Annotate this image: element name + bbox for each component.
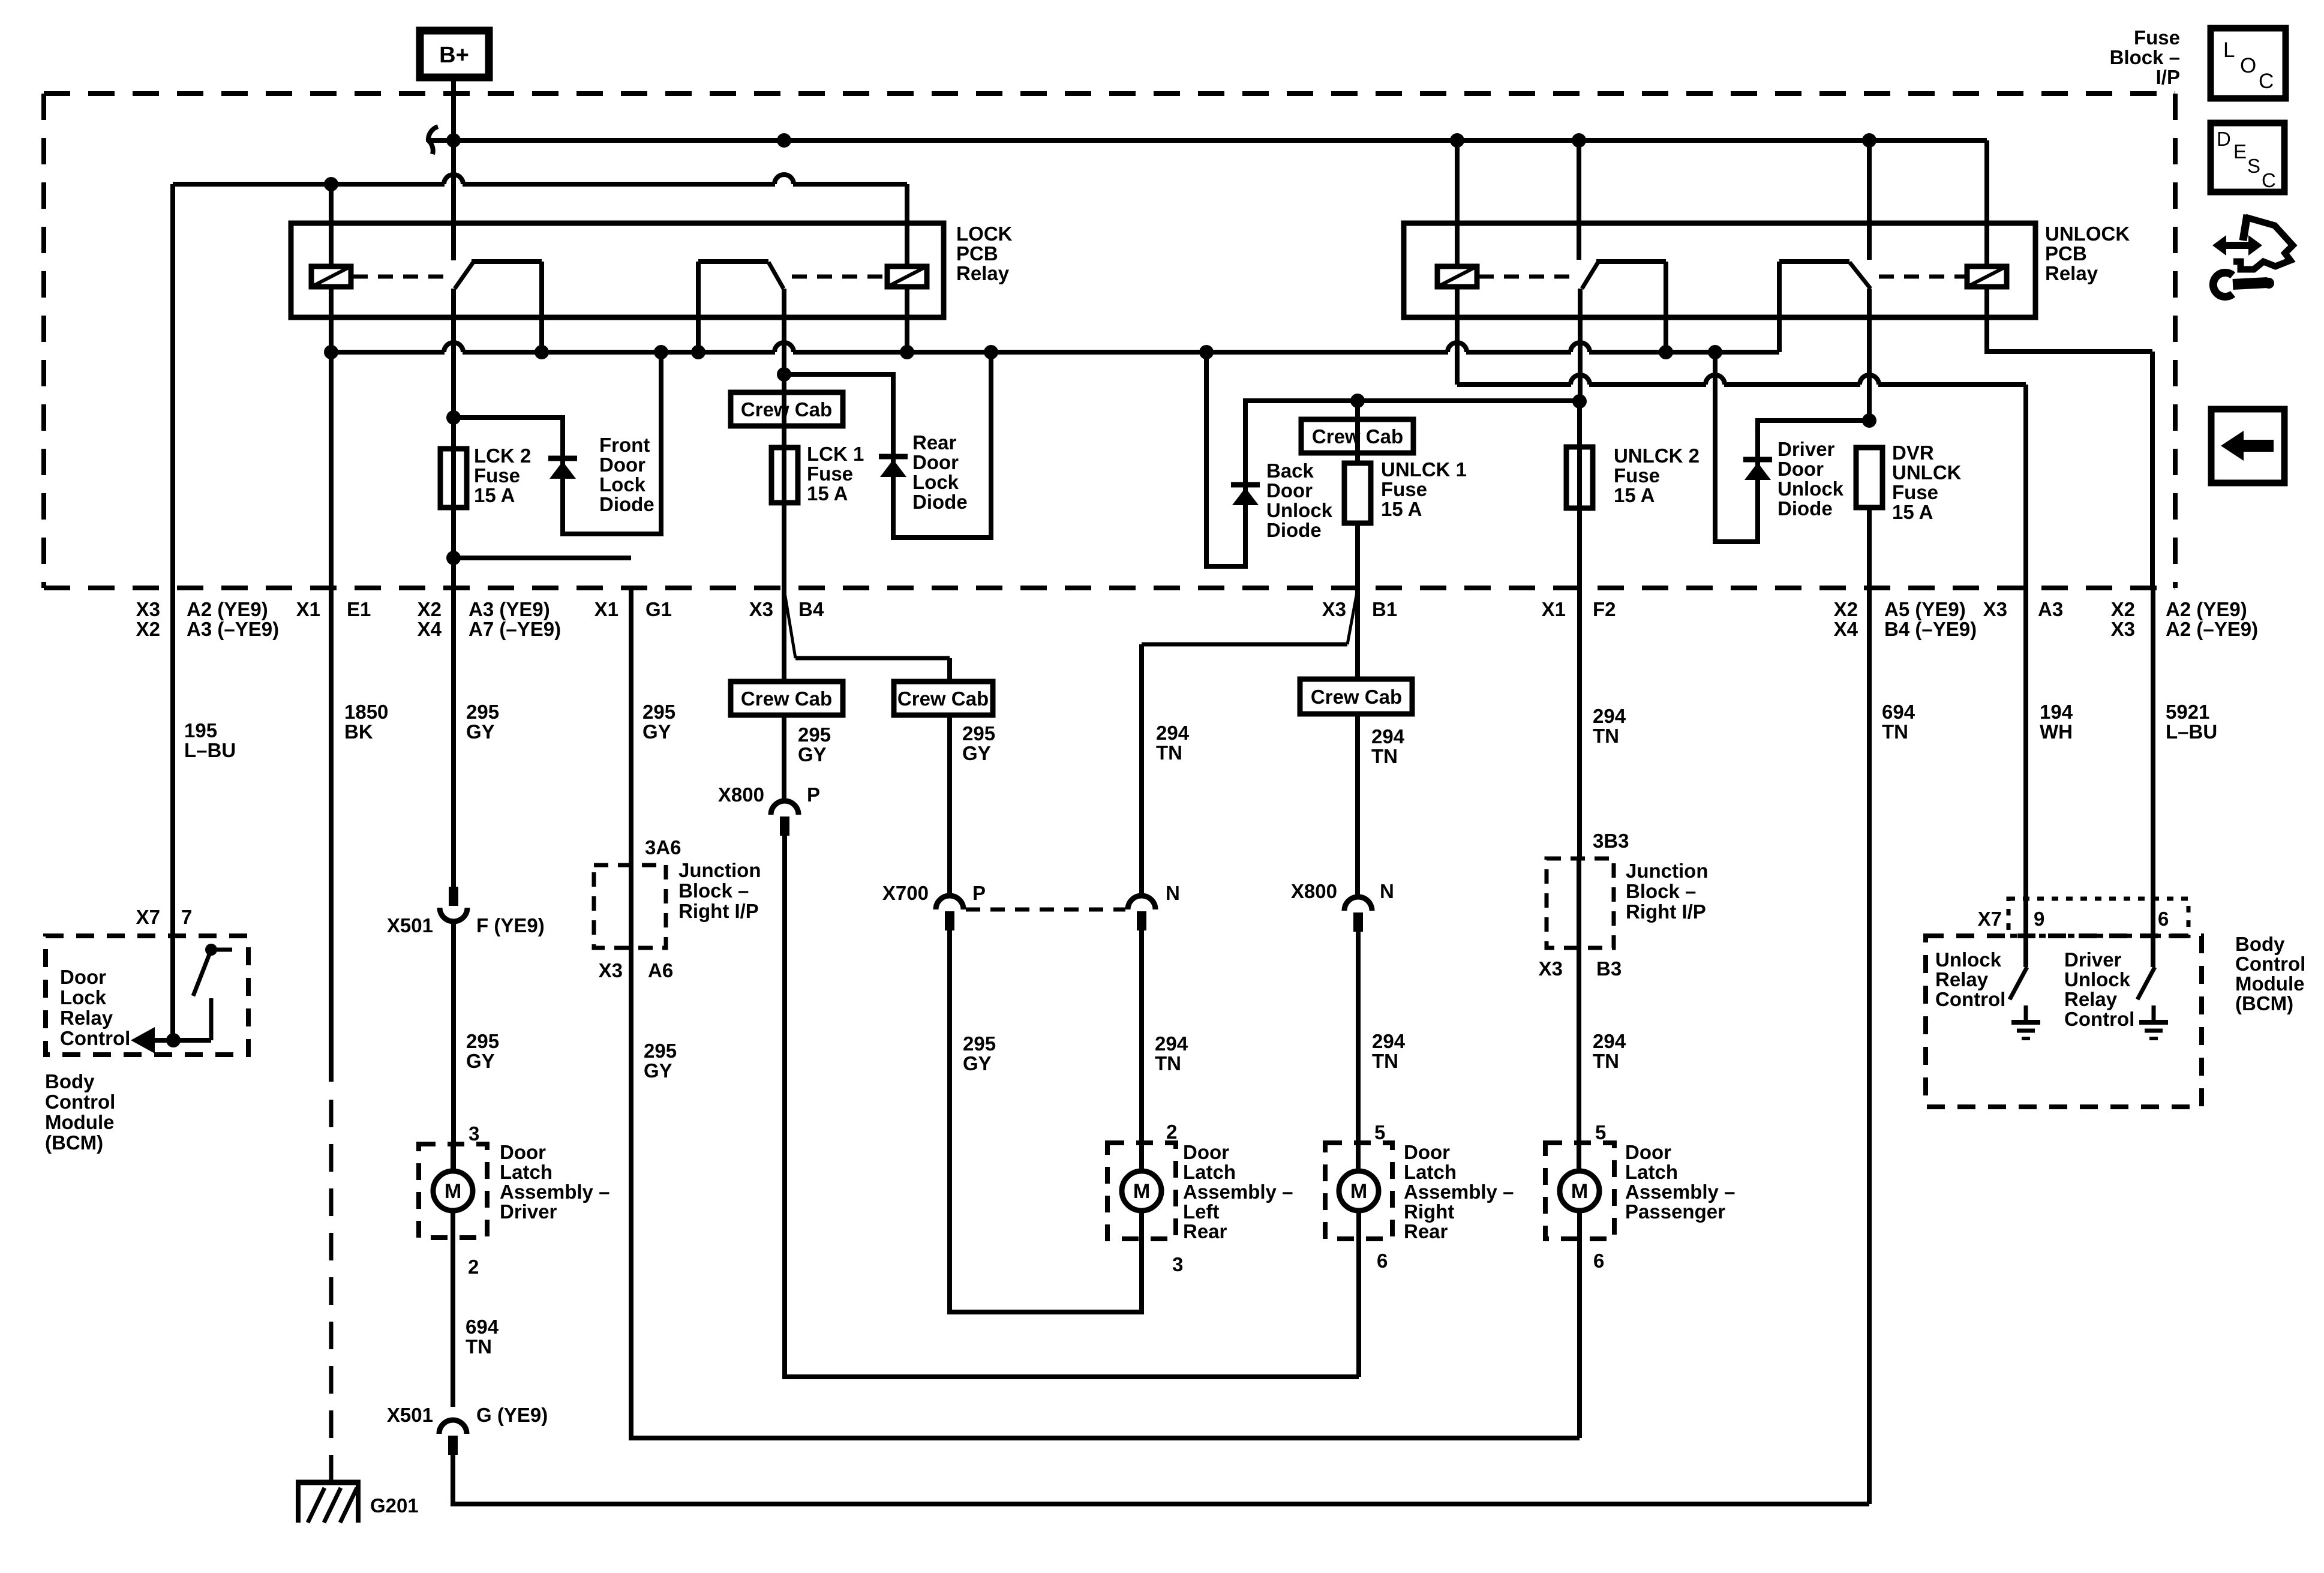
label Door Lock Relay Control bbox=[60, 966, 130, 1049]
svg-text:A2 (YE9): A2 (YE9) bbox=[187, 598, 268, 620]
relay switch LOCK-1 bbox=[455, 262, 542, 352]
wire B1 main down bbox=[1355, 591, 1360, 679]
svg-text:295: 295 bbox=[466, 701, 499, 723]
connector X700 P bbox=[936, 896, 963, 909]
label 694 TN bbox=[1882, 701, 1915, 743]
svg-text:E1: E1 bbox=[347, 598, 371, 620]
connector X501 F bbox=[440, 887, 467, 921]
dashed link X700 P-N bbox=[966, 908, 1125, 912]
label 194 WH bbox=[2040, 701, 2073, 743]
node LCK1 top bbox=[777, 367, 791, 382]
svg-text:F (YE9): F (YE9) bbox=[476, 914, 545, 936]
svg-text:X1: X1 bbox=[296, 598, 320, 620]
svg-text:GY: GY bbox=[963, 1052, 992, 1074]
connector X800 P bbox=[771, 801, 798, 815]
svg-text:B+: B+ bbox=[439, 43, 469, 68]
rear door lock diode loop bbox=[784, 352, 991, 538]
connector X2/X4 A5/B4 labels bbox=[1834, 598, 1977, 640]
svg-text:Door: Door bbox=[912, 451, 959, 473]
fuse UNLCK 2 15A bbox=[1566, 447, 1593, 508]
label 295 GY below junction bbox=[644, 1040, 677, 1082]
wire UNLCK1 tap down bbox=[1355, 401, 1360, 463]
label UNLCK 2 Fuse 15 A bbox=[1614, 445, 1700, 506]
node bus1-2429 bbox=[1450, 133, 1464, 148]
svg-text:Fuse: Fuse bbox=[807, 463, 853, 485]
svg-text:S: S bbox=[2247, 155, 2260, 177]
svg-text:UNLCK: UNLCK bbox=[1892, 461, 1962, 484]
svg-text:G (YE9): G (YE9) bbox=[476, 1404, 548, 1426]
label 295 GY below X700P bbox=[963, 1032, 996, 1074]
wire LOCK switch2 output down bbox=[782, 289, 786, 374]
node bus3-2011 bbox=[1199, 345, 1214, 359]
diode Rear Door Lock bbox=[879, 454, 908, 460]
svg-text:295: 295 bbox=[962, 722, 995, 745]
svg-text:Latch: Latch bbox=[1404, 1161, 1457, 1183]
svg-text:A3: A3 bbox=[2038, 598, 2063, 620]
svg-text:BK: BK bbox=[344, 721, 373, 743]
svg-text:X3: X3 bbox=[1983, 598, 2007, 620]
svg-text:X501: X501 bbox=[387, 1404, 433, 1426]
svg-text:X3: X3 bbox=[2111, 618, 2135, 640]
svg-text:Module: Module bbox=[45, 1111, 114, 1133]
wire 294 TN to X800 N bbox=[1355, 714, 1360, 897]
connector X2/X3 A2 labels bbox=[2111, 598, 2258, 640]
svg-text:L–BU: L–BU bbox=[2166, 721, 2217, 743]
wire X700P down to left rear bbox=[950, 930, 1142, 1312]
svg-text:Diode: Diode bbox=[1266, 519, 1322, 541]
label 295 GY a bbox=[466, 701, 499, 743]
svg-text:Front: Front bbox=[599, 434, 650, 456]
wire UNLCK1 down to B1 bbox=[1355, 523, 1360, 591]
motor M driver bbox=[433, 1171, 473, 1211]
svg-text:TN: TN bbox=[1156, 742, 1182, 764]
bus1 break symbol bbox=[428, 127, 438, 154]
node bus3-2777 bbox=[1659, 345, 1673, 359]
ground unlock relay bbox=[2011, 1005, 2040, 1038]
motor M left rear bbox=[1122, 1171, 1161, 1211]
svg-text:Lock: Lock bbox=[912, 471, 959, 493]
svg-text:Driver: Driver bbox=[1777, 438, 1835, 460]
svg-text:Right I/P: Right I/P bbox=[1626, 900, 1706, 923]
wire 194 down from bus4 bbox=[2023, 385, 2028, 588]
svg-text:UNLOCK: UNLOCK bbox=[2045, 223, 2130, 245]
svg-text:Body: Body bbox=[45, 1070, 95, 1092]
label 295 GY b bbox=[642, 701, 675, 743]
relay box UNLOCK PCB Relay bbox=[1404, 223, 2035, 317]
dashed ground wire bbox=[329, 1100, 334, 1482]
icon arrow wrench bbox=[2212, 215, 2293, 296]
label Rear Door Lock Diode bbox=[912, 431, 968, 513]
wire B4 main down bbox=[782, 591, 786, 682]
icon DESC box bbox=[2211, 123, 2284, 192]
back door unlock diode loop bbox=[1206, 352, 1580, 566]
connector X700 N bbox=[1128, 896, 1155, 909]
connector X800 N bbox=[1344, 897, 1372, 911]
front door lock diode loop bbox=[454, 352, 661, 534]
svg-text:GY: GY bbox=[798, 743, 827, 766]
svg-text:X2: X2 bbox=[136, 618, 160, 640]
dashed link coil1-switch1 bbox=[353, 275, 446, 279]
svg-text:Relay: Relay bbox=[2045, 262, 2098, 284]
svg-text:(BCM): (BCM) bbox=[2235, 992, 2293, 1014]
svg-text:A3 (YE9): A3 (YE9) bbox=[469, 598, 550, 620]
svg-text:3B3: 3B3 bbox=[1593, 830, 1629, 852]
svg-text:Relay: Relay bbox=[60, 1007, 113, 1029]
node bus3-1102 bbox=[654, 345, 668, 359]
wire B1 left branch down bbox=[1139, 644, 1144, 896]
svg-text:E: E bbox=[2233, 140, 2247, 163]
svg-text:G1: G1 bbox=[645, 598, 672, 620]
svg-text:Relay: Relay bbox=[956, 262, 1010, 284]
connector X1 G1 labels bbox=[594, 598, 672, 620]
svg-text:X3: X3 bbox=[136, 598, 160, 620]
label X800 N bbox=[1291, 880, 1394, 902]
wire B4 slant branch bbox=[784, 589, 950, 658]
svg-text:Fuse: Fuse bbox=[2134, 26, 2180, 49]
label LOCK PCB Relay bbox=[956, 223, 1013, 284]
connector X1 E1 labels bbox=[296, 598, 371, 620]
connector X501 G bbox=[439, 1420, 467, 1455]
node bus3-552 bbox=[324, 345, 338, 359]
svg-text:B1: B1 bbox=[1372, 598, 1397, 620]
svg-text:Rear: Rear bbox=[912, 431, 957, 454]
svg-text:Assembly –: Assembly – bbox=[1404, 1181, 1514, 1203]
svg-text:Fuse: Fuse bbox=[1381, 478, 1427, 500]
svg-text:X7: X7 bbox=[1978, 908, 2002, 930]
svg-text:Crew Cab: Crew Cab bbox=[741, 688, 832, 710]
door latch assembly right rear box bbox=[1325, 1143, 1392, 1239]
node BCM left bbox=[166, 1033, 181, 1047]
node bus1-B+ bbox=[446, 133, 461, 148]
wire 294 TN to passenger latch bbox=[1577, 948, 1581, 1171]
wire passenger pins bbox=[1579, 1143, 1580, 1438]
icon back arrow box bbox=[2211, 409, 2284, 483]
wire bus2-552 down to LOCK coil1 bbox=[329, 184, 334, 266]
svg-text:Relay: Relay bbox=[1935, 968, 1989, 990]
connector X2/X4 A3/A7 labels bbox=[418, 598, 561, 640]
svg-text:15 A: 15 A bbox=[1614, 484, 1655, 506]
svg-text:Door: Door bbox=[1625, 1141, 1671, 1163]
svg-text:M: M bbox=[445, 1180, 461, 1203]
svg-text:B4: B4 bbox=[798, 598, 824, 620]
svg-text:Rear: Rear bbox=[1404, 1220, 1448, 1242]
svg-text:Block –: Block – bbox=[1626, 880, 1696, 902]
label Driver Unlock Relay Control bbox=[2064, 948, 2134, 1030]
wire 295 GY G1 down bbox=[629, 588, 633, 865]
svg-text:Door: Door bbox=[60, 966, 106, 988]
svg-text:Diode: Diode bbox=[1777, 497, 1833, 520]
label X501 G bbox=[387, 1404, 548, 1426]
dashed link switch2-coil2 bbox=[792, 275, 885, 279]
node 756-930 branch bbox=[446, 551, 461, 565]
svg-text:LOCK: LOCK bbox=[956, 223, 1013, 245]
svg-text:5: 5 bbox=[1595, 1121, 1606, 1143]
wire 295 GY X2-A3 down bbox=[451, 508, 456, 887]
svg-text:PCB: PCB bbox=[956, 242, 998, 265]
label X7 7 left BCM bbox=[136, 906, 193, 928]
wire B+ down bbox=[451, 77, 456, 260]
label 294 TN b bbox=[1371, 725, 1405, 767]
svg-text:X3: X3 bbox=[749, 598, 773, 620]
label Back Door Unlock Diode bbox=[1266, 460, 1333, 541]
wire B1 slant branch bbox=[1142, 589, 1358, 644]
node DVR UNLCK top bbox=[1862, 413, 1876, 428]
svg-text:294: 294 bbox=[1155, 1032, 1188, 1055]
svg-text:X3: X3 bbox=[1322, 598, 1346, 620]
box Crew Cab LCK1 bbox=[731, 392, 843, 426]
svg-text:Fuse: Fuse bbox=[474, 464, 520, 487]
wire bus2 right down to LOCK coil2 bbox=[905, 184, 909, 266]
motor M passenger bbox=[1560, 1171, 1599, 1211]
wire branch to G1 bbox=[454, 556, 631, 560]
label Body Control Module BCM left bbox=[45, 1070, 115, 1154]
svg-text:X2: X2 bbox=[418, 598, 442, 620]
diode Back Door Unlock bbox=[1231, 482, 1260, 488]
svg-text:Door: Door bbox=[1266, 479, 1313, 502]
wire 295 GY A6 down bbox=[631, 948, 1580, 1438]
label X700 P bbox=[882, 882, 986, 904]
svg-text:M: M bbox=[1571, 1180, 1588, 1203]
svg-text:G201: G201 bbox=[370, 1494, 419, 1517]
svg-text:L–BU: L–BU bbox=[184, 739, 236, 761]
relay coil UNLOCK-2 bbox=[1967, 266, 2007, 287]
svg-text:X800: X800 bbox=[718, 784, 764, 806]
svg-text:Lock: Lock bbox=[60, 986, 107, 1008]
svg-text:TN: TN bbox=[466, 1335, 492, 1358]
svg-text:Back: Back bbox=[1266, 460, 1314, 482]
label Junction Block Right IP right bbox=[1626, 860, 1709, 923]
svg-text:TN: TN bbox=[1371, 745, 1398, 767]
relay box LOCK PCB Relay bbox=[291, 223, 944, 317]
wire 295 GY to X800 P bbox=[782, 715, 786, 801]
svg-text:DVR: DVR bbox=[1892, 442, 1934, 464]
svg-text:UNLCK 1: UNLCK 1 bbox=[1381, 458, 1467, 481]
wire 694 TN rail bbox=[453, 1455, 1869, 1504]
svg-text:Relay: Relay bbox=[2064, 988, 2118, 1010]
svg-text:Door: Door bbox=[1777, 458, 1824, 480]
svg-text:Unlock: Unlock bbox=[1266, 499, 1333, 521]
svg-text:B4 (–YE9): B4 (–YE9) bbox=[1884, 618, 1977, 640]
svg-text:X800: X800 bbox=[1291, 880, 1337, 902]
svg-text:(BCM): (BCM) bbox=[45, 1131, 103, 1154]
driver door unlock diode loop bbox=[1715, 352, 1869, 542]
node LCK2 top bbox=[446, 410, 461, 425]
node bus2-552 bbox=[324, 177, 338, 191]
wire X700N to left rear latch bbox=[1139, 930, 1144, 1171]
BCM left control arrow bbox=[131, 1027, 211, 1053]
connector X1 F2 labels bbox=[1542, 598, 1616, 620]
BCM switch unlock relay bbox=[2010, 967, 2027, 999]
svg-text:PCB: PCB bbox=[2045, 242, 2087, 265]
svg-text:TN: TN bbox=[1593, 725, 1619, 747]
wire F2 294 TN down bbox=[1577, 588, 1582, 858]
svg-text:Diode: Diode bbox=[599, 493, 654, 515]
svg-text:15 A: 15 A bbox=[1892, 501, 1933, 523]
label UNLOCK PCB Relay bbox=[2045, 223, 2130, 284]
wire X800P down to rail bbox=[785, 834, 1359, 1377]
node bus1-3116 bbox=[1862, 133, 1876, 148]
ground G201 bbox=[296, 1482, 361, 1523]
svg-text:M: M bbox=[1133, 1180, 1150, 1203]
box Crew Cab B4 branch bbox=[894, 682, 993, 715]
label 5921 L-BU bbox=[2166, 701, 2217, 743]
label 295 GY c bbox=[798, 724, 831, 766]
svg-text:TN: TN bbox=[1882, 721, 1908, 743]
svg-text:Lock: Lock bbox=[599, 473, 646, 496]
relay switch UNLOCK-4 bbox=[1779, 262, 1870, 352]
wire LOCK coil1 down to bus3 bbox=[329, 287, 334, 352]
diode Driver Door Unlock bbox=[1743, 457, 1772, 463]
wire bus1 corner down to UNLOCK coil2 bbox=[1984, 140, 1989, 266]
svg-text:A7 (–YE9): A7 (–YE9) bbox=[469, 618, 561, 640]
connector X7 dotted box right BCM bbox=[2008, 899, 2188, 936]
wire 5921 down from coil2 bbox=[2150, 352, 2155, 588]
wire 694 down bbox=[1867, 508, 1872, 1504]
svg-text:X700: X700 bbox=[882, 882, 929, 904]
svg-text:GY: GY bbox=[644, 1059, 672, 1082]
label Door Latch Assembly Right Rear bbox=[1404, 1141, 1514, 1242]
svg-text:Block –: Block – bbox=[2110, 46, 2180, 68]
node bus3-903 bbox=[535, 345, 549, 359]
label 294 TN above right rear bbox=[1372, 1030, 1406, 1072]
label 1850 BK bbox=[344, 701, 388, 743]
svg-text:Crew Cab: Crew Cab bbox=[897, 688, 989, 710]
node bus1-1307 bbox=[777, 133, 791, 148]
svg-text:Control: Control bbox=[60, 1027, 130, 1049]
connector X3 A3 labels bbox=[1983, 598, 2064, 620]
svg-text:Right: Right bbox=[1404, 1200, 1454, 1223]
motor M right rear bbox=[1339, 1171, 1379, 1211]
svg-text:5921: 5921 bbox=[2166, 701, 2209, 723]
wire 194 WH down bbox=[2023, 588, 2028, 967]
label 295 GY below X501F bbox=[466, 1030, 499, 1072]
svg-text:X7: X7 bbox=[136, 906, 160, 928]
svg-text:3: 3 bbox=[1172, 1253, 1183, 1275]
label Driver Door Unlock Diode bbox=[1777, 438, 1844, 520]
svg-text:TN: TN bbox=[1155, 1052, 1181, 1074]
wire through junction block bbox=[629, 865, 633, 948]
box Crew Cab B1 bbox=[1300, 679, 1412, 714]
svg-text:GY: GY bbox=[466, 1050, 495, 1072]
svg-text:294: 294 bbox=[1156, 722, 1190, 744]
svg-text:Right I/P: Right I/P bbox=[678, 900, 759, 922]
svg-text:X4: X4 bbox=[1834, 618, 1858, 640]
svg-text:Passenger: Passenger bbox=[1625, 1200, 1725, 1223]
wire E1 1850 BK bbox=[329, 352, 334, 588]
svg-text:694: 694 bbox=[466, 1316, 499, 1338]
svg-text:Left: Left bbox=[1183, 1200, 1220, 1223]
ground driver unlock relay bbox=[2139, 1005, 2168, 1038]
svg-text:GY: GY bbox=[962, 742, 991, 764]
svg-text:Junction: Junction bbox=[1626, 860, 1709, 882]
svg-text:B3: B3 bbox=[1596, 957, 1622, 980]
svg-text:X3: X3 bbox=[599, 959, 623, 981]
box Crew Cab B4 main bbox=[731, 682, 843, 715]
wire UNLOCK coil1 down to bus4 bbox=[1455, 287, 1460, 385]
node UNLCK2 top bbox=[1572, 394, 1587, 409]
wire 195 L-BU down bbox=[170, 588, 175, 1040]
svg-text:9: 9 bbox=[2034, 908, 2044, 930]
label 294 TN below X700N bbox=[1155, 1032, 1188, 1074]
dashed link coil1-switch3 bbox=[1479, 275, 1572, 279]
wire UNLOCK switch3 output down bbox=[1578, 289, 1583, 401]
svg-text:6: 6 bbox=[2158, 908, 2169, 930]
svg-text:Assembly –: Assembly – bbox=[1183, 1181, 1293, 1203]
wire 694 TN from driver latch bbox=[451, 1144, 455, 1171]
svg-text:X2: X2 bbox=[2111, 598, 2135, 620]
label X7 9 6 bbox=[1978, 908, 2169, 930]
svg-text:Door: Door bbox=[1404, 1141, 1450, 1163]
wire right rear pins bbox=[1358, 1143, 1359, 1377]
svg-text:294: 294 bbox=[1372, 1030, 1406, 1052]
svg-text:P: P bbox=[972, 882, 986, 904]
svg-text:Driver: Driver bbox=[2064, 948, 2122, 971]
wire bus1 down to UNLOCK switch4 bbox=[1867, 140, 1872, 260]
svg-text:TN: TN bbox=[1593, 1050, 1619, 1072]
node UNLCK1 tap bbox=[1350, 394, 1365, 408]
BCM left switch bbox=[193, 944, 232, 1040]
svg-text:WH: WH bbox=[2040, 721, 2073, 743]
svg-text:Module: Module bbox=[2235, 972, 2304, 995]
label LCK 2 Fuse 15 A bbox=[474, 445, 531, 506]
wire 295 GY to driver latch bbox=[451, 921, 456, 1171]
label 294 TN above passenger bbox=[1593, 1030, 1626, 1072]
label DVR UNLCK Fuse 15 A bbox=[1892, 442, 1962, 523]
svg-text:GY: GY bbox=[642, 721, 671, 743]
svg-text:Junction: Junction bbox=[678, 859, 761, 881]
label X3 A6 bbox=[599, 959, 674, 981]
relay switch UNLOCK-3 bbox=[1582, 262, 1666, 352]
node bus3-2859 bbox=[1708, 345, 1722, 359]
svg-text:Door: Door bbox=[500, 1141, 546, 1163]
wire LOCK switch1 output down bbox=[451, 289, 456, 558]
dashed link switch4-coil2 bbox=[1879, 275, 1965, 279]
label X800 P bbox=[718, 784, 820, 806]
wire LOCK coil2 down to bus3 bbox=[905, 287, 909, 352]
svg-text:Block –: Block – bbox=[678, 879, 749, 902]
svg-text:Assembly –: Assembly – bbox=[500, 1181, 609, 1203]
svg-text:M: M bbox=[1350, 1180, 1367, 1203]
label X3 B3 bbox=[1539, 957, 1622, 980]
svg-text:694: 694 bbox=[1882, 701, 1915, 723]
svg-text:5: 5 bbox=[1374, 1121, 1385, 1143]
svg-text:Body: Body bbox=[2235, 933, 2285, 955]
junction block right IP left dashed box bbox=[594, 865, 666, 948]
door latch assembly passenger box bbox=[1545, 1143, 1614, 1239]
diode Front Door Lock bbox=[548, 456, 577, 461]
svg-text:P: P bbox=[807, 784, 820, 806]
label Fuse Block - I/P bbox=[2110, 26, 2180, 88]
door latch assembly left rear box bbox=[1107, 1143, 1176, 1239]
svg-text:294: 294 bbox=[1593, 1030, 1626, 1052]
svg-text:Unlock: Unlock bbox=[1777, 478, 1844, 500]
svg-text:X1: X1 bbox=[594, 598, 618, 620]
svg-text:194: 194 bbox=[2040, 701, 2073, 723]
svg-text:2: 2 bbox=[1166, 1121, 1177, 1143]
BCM right dashed box bbox=[1926, 936, 2202, 1107]
svg-text:O: O bbox=[2240, 54, 2256, 77]
wire bus1 down to UNLOCK coil1 bbox=[1455, 140, 1460, 266]
node bus3-1164 bbox=[691, 345, 705, 359]
svg-text:Crew Cab: Crew Cab bbox=[1311, 686, 1402, 708]
svg-text:N: N bbox=[1380, 880, 1394, 902]
svg-text:X1: X1 bbox=[1542, 598, 1566, 620]
svg-text:3: 3 bbox=[469, 1122, 479, 1145]
svg-text:3A6: 3A6 bbox=[645, 836, 681, 858]
svg-text:D: D bbox=[2217, 128, 2231, 150]
label Door Latch Assembly Driver bbox=[500, 1141, 609, 1223]
connector X3 B1 labels bbox=[1322, 598, 1398, 620]
